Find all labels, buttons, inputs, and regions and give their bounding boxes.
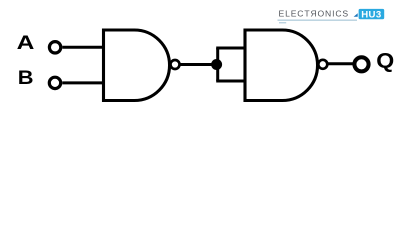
- logo HUB box: [359, 9, 385, 19]
- wire top stub to gate U2 input: [216, 47, 246, 50]
- output terminal Q: [354, 57, 368, 71]
- svg-text:Q: Q: [376, 48, 394, 72]
- svg-text:A: A: [17, 31, 35, 53]
- svg-text:HU3: HU3: [361, 9, 381, 20]
- logo underline step segment: [279, 22, 286, 23]
- wire bottom stub to gate U2 input: [216, 80, 246, 83]
- wire B to gate U1: [62, 81, 105, 84]
- NAND gate U2 body: [245, 30, 318, 101]
- NAND gate U1 body: [104, 30, 170, 101]
- logo underline trace: [278, 20, 358, 21]
- wire vertical riser at node: [216, 48, 219, 81]
- input terminal B: [49, 77, 60, 88]
- logo HUB box notch: [354, 13, 358, 16]
- svg-text:ELECTЯONICS: ELECTЯONICS: [279, 9, 349, 19]
- NAND gate U2 output bubble: [318, 60, 327, 69]
- input terminal A: [49, 42, 60, 53]
- NAND gate U1 output bubble: [171, 60, 180, 69]
- wire U2 output to terminal Q: [328, 62, 354, 65]
- svg-text:B: B: [18, 67, 34, 89]
- wire A to gate U1: [62, 46, 105, 49]
- wire U1 output to junction node: [180, 63, 217, 66]
- junction node (solder dot): [211, 59, 222, 70]
